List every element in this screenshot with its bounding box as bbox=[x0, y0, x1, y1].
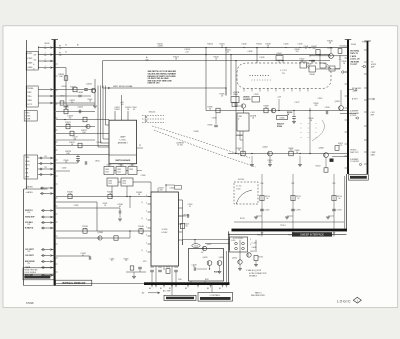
transistor Q1140 bbox=[98, 236, 102, 240]
more mid-left rows bbox=[56, 139, 95, 141]
svg-text:4 +5V LOGIC: 4 +5V LOGIC bbox=[233, 238, 244, 240]
dashed curve upper bbox=[152, 126, 250, 158]
svg-text:CH1 VERT: CH1 VERT bbox=[25, 249, 35, 251]
wire row y154 bbox=[56, 154, 109, 156]
svg-text:C1583: C1583 bbox=[254, 94, 259, 96]
gate U1303 bbox=[128, 167, 137, 175]
svg-text:B3: B3 bbox=[185, 288, 187, 290]
resistor R1586 bbox=[216, 108, 220, 113]
svg-text:VERT MODE SIGNAL: VERT MODE SIGNAL bbox=[113, 85, 134, 88]
svg-text:C1057: C1057 bbox=[60, 96, 65, 98]
transistor Q1608 bbox=[324, 153, 329, 158]
svg-text:R1734: R1734 bbox=[258, 256, 263, 258]
svg-text:C552: C552 bbox=[150, 267, 154, 269]
wire row y126 bbox=[56, 126, 95, 128]
svg-text:C1036: C1036 bbox=[77, 92, 83, 94]
extra junction dots left rows bbox=[54, 89, 55, 90]
ic pins left bbox=[148, 196, 152, 198]
svg-text:B: B bbox=[142, 234, 143, 236]
svg-text:R1705: R1705 bbox=[240, 218, 245, 220]
connector block J1075 bbox=[26, 52, 38, 71]
gate U1304 bbox=[107, 178, 118, 186]
wire u1581 drop bbox=[234, 103, 236, 107]
svg-text:B: B bbox=[33, 69, 34, 71]
resistor R1588 bbox=[264, 108, 268, 113]
svg-text:SGL: SGL bbox=[25, 173, 28, 175]
svg-text:LOGIC +5V: LOGIC +5V bbox=[350, 59, 360, 61]
capacitor C1583b bbox=[282, 61, 284, 63]
svg-text:P62: P62 bbox=[333, 183, 336, 185]
svg-text:R556: R556 bbox=[166, 266, 170, 268]
svg-text:TP1701: TP1701 bbox=[280, 225, 286, 227]
readout right border outer bbox=[345, 174, 347, 231]
resistor R1033 bbox=[64, 76, 68, 80]
wire y238 bbox=[56, 237, 130, 239]
svg-text:74LS: 74LS bbox=[105, 172, 109, 174]
svg-text:B0: B0 bbox=[149, 288, 151, 290]
wire drop x140b bbox=[139, 269, 141, 272]
oval label P1616 bbox=[192, 244, 200, 248]
wire B-sweep rail bbox=[38, 54, 330, 56]
svg-text:R1712: R1712 bbox=[296, 196, 301, 198]
transistor Q1598 bbox=[339, 106, 344, 111]
svg-text:U1581A: U1581A bbox=[233, 91, 240, 94]
wire x326 down bbox=[325, 157, 327, 168]
svg-text:B: B bbox=[238, 119, 239, 121]
switch dark box bbox=[23, 274, 54, 280]
svg-text:C554: C554 bbox=[158, 267, 162, 269]
svg-text:C1039: C1039 bbox=[298, 43, 303, 45]
svg-text:B: B bbox=[142, 202, 143, 204]
wire vert x310b bbox=[309, 108, 311, 140]
bus vertical-mode bus bbox=[54, 40, 56, 286]
wire readout entry x334 bbox=[333, 174, 335, 186]
svg-text:xx: xx bbox=[300, 128, 302, 130]
svg-text:01: 01 bbox=[189, 206, 191, 208]
capacitor C1060 bbox=[84, 88, 88, 90]
transistor Q1730 bbox=[238, 260, 242, 264]
dashed curve lower bbox=[154, 130, 256, 167]
switch list box bbox=[23, 268, 54, 274]
wire J650 drop bbox=[226, 251, 228, 282]
svg-text:1.6: 1.6 bbox=[44, 48, 47, 50]
ic U1550 main block bbox=[151, 192, 178, 266]
bus horiz top tick bbox=[364, 40, 370, 42]
svg-text:U 550: U 550 bbox=[162, 229, 168, 231]
svg-text:R1080: R1080 bbox=[64, 160, 69, 162]
svg-text:P61: P61 bbox=[292, 183, 295, 185]
svg-text:LOGIC: LOGIC bbox=[120, 139, 127, 141]
wire y208 bbox=[56, 207, 120, 209]
wire drop x236 bbox=[235, 61, 237, 154]
trigger banner box bbox=[349, 175, 369, 181]
readout left border bbox=[227, 231, 229, 283]
svg-text:U303: U303 bbox=[129, 169, 133, 171]
wire vert readout x262 bbox=[261, 186, 263, 229]
svg-text:C1793: C1793 bbox=[296, 210, 301, 212]
svg-text:U150: U150 bbox=[95, 161, 100, 163]
wire y158 right bbox=[332, 156, 347, 158]
wire y202 bbox=[56, 201, 97, 203]
wire x279 stub bbox=[278, 60, 280, 63]
svg-text:74LS: 74LS bbox=[122, 183, 126, 185]
wire row y171 bbox=[56, 170, 70, 172]
resistor R1077 bbox=[78, 143, 82, 148]
connector circle on bar3 bbox=[363, 65, 365, 67]
svg-text:P1031: P1031 bbox=[256, 43, 261, 45]
transistor Q1604 bbox=[268, 151, 273, 156]
svg-text:R1612: R1612 bbox=[214, 272, 219, 274]
wire q1604 down bbox=[269, 156, 271, 164]
wire left frame bottom bbox=[24, 285, 54, 287]
resistor R1144 bbox=[114, 236, 118, 240]
gate box U1581A bbox=[231, 97, 239, 103]
svg-text:SWP OUT: SWP OUT bbox=[350, 152, 359, 154]
driver bottom pins bbox=[190, 281, 192, 282]
readout bottom bus bar bbox=[232, 229, 348, 232]
junction dots extra rails bbox=[221, 47, 222, 48]
wire row y133 bbox=[56, 133, 109, 135]
svg-text:LAMP: LAMP bbox=[120, 135, 126, 138]
svg-text:C1074: C1074 bbox=[73, 137, 78, 139]
pin below bar x334 bbox=[333, 231, 335, 236]
svg-text:50: 50 bbox=[65, 51, 67, 53]
wire x279 up bbox=[278, 99, 280, 111]
svg-text:P31: P31 bbox=[282, 73, 285, 75]
svg-text:DSPL TO: DSPL TO bbox=[350, 53, 358, 55]
bus horiz bus bbox=[367, 41, 369, 174]
crt pins bottom bbox=[243, 89, 245, 92]
resistor R1071 bbox=[66, 124, 70, 129]
svg-text:1.8: 1.8 bbox=[121, 104, 124, 106]
block1 right pin bbox=[137, 147, 144, 149]
svg-text:MODE TRIG SEL: MODE TRIG SEL bbox=[25, 269, 38, 271]
svg-text:C1082: C1082 bbox=[62, 168, 67, 170]
svg-text:Q1732: Q1732 bbox=[250, 251, 255, 253]
wire drop to banner1 bbox=[171, 285, 173, 296]
capacitor C1598 bbox=[325, 111, 327, 115]
svg-text:U581: U581 bbox=[238, 116, 242, 118]
wire drop x206 bbox=[205, 48, 207, 111]
wire readout entry x293 bbox=[292, 174, 294, 186]
svg-text:OUT: OUT bbox=[33, 55, 36, 57]
wire driver drop x195b bbox=[194, 240, 196, 244]
svg-text:C1598: C1598 bbox=[325, 107, 330, 109]
svg-text:74LS: 74LS bbox=[117, 172, 121, 174]
capacitor C334 bbox=[332, 208, 336, 210]
svg-text:01: 01 bbox=[82, 255, 84, 257]
svg-text:W1010: W1010 bbox=[44, 43, 49, 45]
matrix arc bbox=[312, 120, 324, 141]
svg-text:TRIG: TRIG bbox=[25, 113, 30, 115]
svg-text:Q1598: Q1598 bbox=[334, 101, 339, 103]
svg-text:R1596: R1596 bbox=[309, 118, 314, 120]
resistor R1710 bbox=[260, 195, 264, 200]
svg-text:ADD MODE: ADD MODE bbox=[25, 260, 35, 263]
wire gate rowA bbox=[40, 187, 54, 189]
capacitor C262 bbox=[260, 208, 264, 210]
svg-text:xx: xx bbox=[300, 132, 302, 134]
resistor R1610 bbox=[335, 146, 339, 151]
svg-text:VIEW: VIEW bbox=[25, 161, 30, 163]
wire left frame vertical bbox=[26, 40, 28, 189]
svg-text:C558: C558 bbox=[174, 267, 178, 269]
wire drop x240 bbox=[239, 240, 241, 260]
svg-text:VIEW: VIEW bbox=[27, 100, 32, 102]
svg-text:Q1140: Q1140 bbox=[97, 232, 103, 234]
wire x341 up bbox=[340, 90, 342, 106]
svg-text:DL1700: DL1700 bbox=[238, 179, 244, 181]
wire drops into lamp block bbox=[114, 111, 116, 120]
svg-text:EXT Z: EXT Z bbox=[27, 104, 32, 106]
capacitor C1046 bbox=[311, 59, 315, 61]
wire vert readout x293 bbox=[292, 186, 294, 229]
svg-text:P11: P11 bbox=[45, 167, 48, 169]
wire x294 gnd bbox=[293, 119, 295, 122]
svg-text:U1581B: U1581B bbox=[236, 135, 243, 137]
svg-text:P32: P32 bbox=[28, 224, 31, 226]
capacitor C1036 bbox=[78, 94, 82, 96]
pin below bar x262 bbox=[261, 231, 263, 236]
svg-text:xx: xx bbox=[308, 132, 310, 134]
wire bar stub y113 bbox=[340, 113, 347, 115]
svg-text:B1: B1 bbox=[160, 288, 162, 290]
capacitor C1558 group bbox=[174, 269, 178, 271]
svg-text:CH2 VERT: CH2 VERT bbox=[25, 255, 35, 257]
transistor Q1732 bbox=[247, 253, 251, 257]
svg-text:R1092: R1092 bbox=[124, 258, 129, 260]
junction y196 bbox=[129, 196, 130, 197]
wires gate interconnect bbox=[108, 164, 110, 167]
crt inner dots row2 bbox=[251, 79, 254, 82]
svg-text:P2: P2 bbox=[139, 145, 141, 147]
svg-text:C560: C560 bbox=[178, 279, 182, 281]
readout right border inner bbox=[344, 176, 346, 229]
capacitor C1618 bbox=[193, 267, 195, 271]
transistor Q1035 bbox=[91, 88, 96, 93]
svg-text:74S00: 74S00 bbox=[233, 94, 238, 96]
svg-text:R1048: R1048 bbox=[310, 74, 315, 76]
resistor R1606 bbox=[289, 151, 293, 156]
pin circle y161 bbox=[359, 163, 361, 165]
wire vert readout x334 bbox=[333, 186, 335, 229]
svg-text:50: 50 bbox=[65, 44, 67, 46]
diamond logic symbol bbox=[353, 297, 361, 303]
resistor R1510 bbox=[181, 223, 185, 228]
svg-text:C1064: C1064 bbox=[77, 107, 83, 109]
wires right cluster bbox=[307, 65, 310, 69]
svg-text:R1044: R1044 bbox=[340, 45, 345, 47]
svg-text:C1584: C1584 bbox=[212, 118, 217, 120]
delay-line dashed box bbox=[234, 182, 258, 204]
svg-text:470: 470 bbox=[315, 105, 318, 107]
capacitor C1064 bbox=[78, 110, 80, 114]
wire row y119 bbox=[56, 119, 109, 121]
svg-text:C1734: C1734 bbox=[337, 210, 342, 212]
wire A-sweep top rail bbox=[38, 47, 347, 49]
svg-text:R1023: R1023 bbox=[207, 44, 213, 46]
svg-text:1.6: 1.6 bbox=[59, 55, 62, 57]
resistor R1132 bbox=[108, 194, 112, 198]
svg-text:xx: xx bbox=[315, 128, 317, 130]
sweep bus pin stubs bbox=[345, 45, 348, 47]
svg-text:C1306: C1306 bbox=[141, 175, 146, 177]
driver box outline bbox=[189, 249, 224, 282]
resistor R1093 bbox=[130, 266, 134, 270]
svg-text:HORIZ: HORIZ bbox=[371, 64, 376, 66]
lamp logic block U1250 bbox=[109, 120, 137, 164]
svg-text:PART 5: PART 5 bbox=[255, 291, 261, 294]
wire drop x256 bbox=[255, 240, 257, 252]
wire +gate-B row bbox=[38, 67, 66, 69]
ground x240c bbox=[239, 264, 241, 268]
svg-text:+5V: +5V bbox=[201, 252, 204, 254]
wire y110 long bbox=[206, 110, 347, 112]
svg-text:xx: xx bbox=[315, 123, 317, 125]
wire y272 stub bbox=[126, 271, 146, 273]
wire driver internals bbox=[197, 268, 207, 270]
svg-text:xx: xx bbox=[308, 137, 310, 139]
svg-text:xx: xx bbox=[315, 132, 317, 134]
svg-text:U304: U304 bbox=[108, 181, 112, 183]
resistor R1134 bbox=[83, 229, 87, 233]
ground readout x334 bbox=[328, 215, 334, 217]
svg-text:U1583: U1583 bbox=[277, 53, 282, 55]
svg-text:B4: B4 bbox=[207, 288, 209, 290]
wire y105 join bbox=[66, 104, 95, 106]
tall gate box U1581B bbox=[237, 113, 249, 131]
svg-text:B5: B5 bbox=[219, 288, 221, 290]
gate box x279 bbox=[276, 56, 283, 61]
svg-text:1%: 1% bbox=[71, 102, 74, 104]
bus top tick bbox=[51, 39, 58, 41]
svg-text:J651: J651 bbox=[143, 261, 147, 263]
tall box second drop bbox=[239, 131, 241, 140]
svg-text:xx: xx bbox=[308, 128, 310, 130]
delay-line arc bbox=[236, 190, 252, 204]
svg-text:01: 01 bbox=[133, 109, 135, 111]
resistor R1734 bbox=[254, 256, 258, 261]
gate U1301 bbox=[104, 167, 114, 175]
interface bus wire bbox=[228, 233, 346, 235]
svg-text:Q1617: Q1617 bbox=[207, 244, 212, 246]
svg-text:Q1608: Q1608 bbox=[318, 148, 323, 150]
transistor Q1590 bbox=[271, 108, 276, 113]
svg-text:U302: U302 bbox=[117, 169, 121, 171]
svg-text:DL 700: DL 700 bbox=[236, 185, 241, 187]
svg-text:xx: xx bbox=[300, 137, 302, 139]
wire drop x102 bbox=[102, 61, 104, 88]
resistor R1146 bbox=[139, 229, 143, 233]
svg-text:B ENDS A: B ENDS A bbox=[25, 227, 34, 230]
svg-text:01: 01 bbox=[119, 206, 121, 208]
transistor Q1619 bbox=[207, 261, 212, 266]
wire J650 row bbox=[195, 239, 230, 241]
svg-text:R1714: R1714 bbox=[337, 196, 342, 198]
svg-text:xx: xx bbox=[308, 123, 310, 125]
wire drop x257 bbox=[256, 48, 258, 63]
svg-text:VIA R1580: VIA R1580 bbox=[350, 60, 359, 63]
vert bus pin stubs right side bbox=[56, 63, 58, 65]
bus sweep bus bbox=[347, 40, 349, 175]
left bus extra dots bbox=[54, 157, 55, 158]
svg-text:Q1619: Q1619 bbox=[203, 257, 208, 259]
bus sweep top tick bbox=[345, 39, 352, 41]
small box chain mid bbox=[232, 103, 237, 107]
resistor R1556 group bbox=[166, 269, 170, 274]
resistor R1712 bbox=[291, 195, 295, 200]
svg-text:SWITCH BOARD: SWITCH BOARD bbox=[115, 159, 131, 162]
svg-text:U1590: U1590 bbox=[280, 118, 285, 120]
wire drop x320 bbox=[319, 55, 321, 63]
wire q1040 up bbox=[330, 48, 332, 54]
junction dot x300 bbox=[299, 47, 300, 48]
banner vertical mode switch bbox=[56, 280, 92, 285]
svg-text:LOGIC: LOGIC bbox=[337, 300, 351, 304]
svg-text:LOGIC: LOGIC bbox=[161, 232, 168, 234]
ground x256c bbox=[255, 261, 257, 265]
wire gate rowB bbox=[40, 193, 54, 195]
svg-text:B TRIG: B TRIG bbox=[350, 115, 357, 117]
svg-text:R1585: R1585 bbox=[208, 124, 213, 126]
svg-text:HORIZ DSP: HORIZ DSP bbox=[25, 217, 35, 219]
svg-text:S7928: S7928 bbox=[26, 301, 34, 305]
svg-text:P1041: P1041 bbox=[362, 42, 367, 44]
svg-text:R1594: R1594 bbox=[277, 125, 282, 128]
svg-text:510: 510 bbox=[290, 150, 293, 152]
svg-text:OUT: OUT bbox=[33, 59, 36, 61]
dark box x331 bbox=[330, 159, 334, 162]
interface bus dark label bbox=[292, 232, 332, 236]
svg-text:2 SWP: 2 SWP bbox=[371, 152, 376, 154]
svg-text:PUSH: PUSH bbox=[25, 119, 30, 121]
main interface bus bottom bbox=[144, 282, 230, 285]
svg-text:C1041: C1041 bbox=[304, 46, 309, 48]
svg-text:01: 01 bbox=[227, 52, 229, 54]
ground readout x293 bbox=[287, 215, 293, 217]
svg-text:R1045: R1045 bbox=[342, 61, 347, 63]
resistor R1073 bbox=[70, 131, 74, 136]
svg-text:C1032: C1032 bbox=[248, 51, 253, 53]
wire vert x97 bbox=[96, 202, 98, 231]
svg-text:R1058: R1058 bbox=[62, 86, 67, 88]
svg-text:Q1730: Q1730 bbox=[232, 257, 237, 259]
svg-text:Q1035: Q1035 bbox=[86, 83, 92, 85]
svg-text:C1618: C1618 bbox=[192, 264, 197, 266]
wire y153 long bbox=[228, 153, 347, 155]
svg-text:R1061: R1061 bbox=[88, 99, 93, 101]
svg-text:1.6: 1.6 bbox=[59, 48, 62, 50]
capacitor C1142 bbox=[88, 256, 90, 260]
gate U1305 bbox=[121, 178, 133, 186]
gate box small x252 bbox=[252, 97, 260, 103]
banner big bbox=[198, 292, 233, 301]
ground sub1 bbox=[64, 105, 68, 107]
gate box x322 bbox=[320, 63, 326, 68]
connector bracket bbox=[38, 46, 40, 69]
svg-text:J 650: J 650 bbox=[231, 240, 235, 242]
capacitor C1094 bbox=[138, 266, 142, 268]
resistor R1044 bbox=[338, 49, 342, 54]
svg-text:TO CRT: TO CRT bbox=[350, 64, 358, 66]
wire vert x66 bbox=[65, 68, 67, 105]
svg-text:J60: J60 bbox=[142, 293, 145, 295]
svg-text:C1026: C1026 bbox=[242, 44, 247, 46]
svg-text:R618: R618 bbox=[205, 279, 209, 281]
capacitor C1138 bbox=[118, 210, 120, 214]
ground driver bbox=[219, 265, 221, 271]
pin below bar x293 bbox=[292, 231, 294, 236]
